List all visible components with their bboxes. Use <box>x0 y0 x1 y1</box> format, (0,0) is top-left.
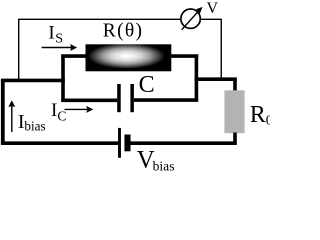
wire: left vertical of main loop <box>1 80 5 143</box>
resistor R(θ) body <box>86 44 172 71</box>
svg-text:I: I <box>48 23 54 44</box>
wire: voltmeter sense loop, top horizontal thin wire <box>18 18 181 20</box>
capacitor C left plate <box>117 84 121 112</box>
wire: left branch vertical (node joining R and C branches) <box>61 55 65 101</box>
wire: R0 bottom lead <box>233 133 237 144</box>
voltmeter needle arrowhead <box>196 7 203 14</box>
current arrow I_C shaft <box>65 108 88 110</box>
wire: to capacitor C left <box>61 99 117 103</box>
svg-text:C: C <box>139 72 155 98</box>
voltmeter V (circle) <box>181 9 200 28</box>
current arrow I_S head <box>70 44 77 51</box>
current arrow I_bias shaft <box>11 106 13 133</box>
wire: node horizontal to R0 branch <box>195 77 237 81</box>
svg-text:V: V <box>207 0 219 17</box>
svg-text:bias: bias <box>153 158 175 173</box>
svg-text:R(θ): R(θ) <box>103 21 144 42</box>
svg-text:S: S <box>55 32 63 47</box>
current arrow I_C head <box>86 106 93 113</box>
wire: voltmeter loop right vertical thin wire <box>220 19 222 78</box>
capacitor C right plate <box>130 84 134 112</box>
svg-text:I: I <box>51 100 57 121</box>
battery Vbias negative plate (short thick) <box>124 135 130 152</box>
svg-text:bias: bias <box>24 118 45 133</box>
resistor R(θ) hot-spot glow <box>88 43 165 69</box>
svg-text:C: C <box>57 108 66 123</box>
current arrow I_bias head <box>8 100 15 107</box>
svg-text:R: R <box>250 102 266 128</box>
wire: main left horizontal <box>1 79 65 83</box>
wire: bottom right horizontal <box>130 141 236 145</box>
current arrow I_S shaft <box>42 47 72 49</box>
svg-text:0: 0 <box>266 114 270 129</box>
wire: from capacitor C right <box>134 98 198 102</box>
wire: from R(θ) right <box>170 54 198 58</box>
wire: voltmeter loop top-right horizontal thin wire <box>200 18 222 20</box>
wire: voltmeter sense loop, left vertical thin wire <box>18 19 20 79</box>
voltmeter needle arrow shaft <box>182 10 200 29</box>
resistor R0 body <box>224 90 244 133</box>
wire: to R(θ) left <box>61 54 87 58</box>
wire: R0 top lead <box>233 79 237 91</box>
wire: right branch vertical (node joining R and C branches) <box>195 55 199 101</box>
battery Vbias positive plate (long) <box>118 128 121 158</box>
wire: bottom left horizontal <box>1 141 118 145</box>
